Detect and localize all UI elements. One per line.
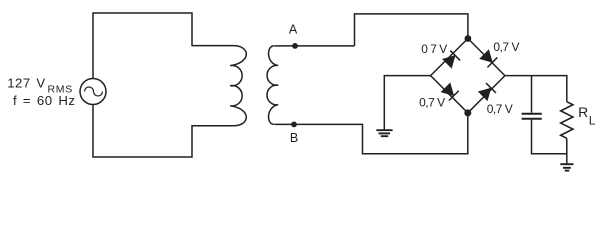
transformer T1 primary winding bbox=[230, 46, 246, 126]
svg-text:B: B bbox=[290, 131, 298, 145]
node: bridge top junction bbox=[465, 35, 472, 42]
resistor RL bbox=[561, 102, 573, 139]
wire bbox=[274, 113, 468, 154]
node B bbox=[291, 122, 297, 128]
wire bbox=[355, 14, 468, 46]
diode D3 (lower left) bbox=[441, 82, 460, 101]
node: bridge bottom junction bbox=[464, 109, 471, 116]
ground (bridge) bbox=[376, 130, 392, 136]
ground (output) bbox=[560, 164, 573, 170]
svg-text:R: R bbox=[578, 104, 588, 120]
diode bridge bbox=[431, 39, 505, 113]
capacitor C branch wire bbox=[531, 76, 533, 113]
svg-text:0 7 V: 0 7 V bbox=[421, 42, 447, 56]
capacitor C bbox=[522, 114, 542, 119]
svg-text:f = 60 Hz: f = 60 Hz bbox=[13, 93, 75, 108]
wire bbox=[384, 76, 430, 130]
wire bbox=[93, 13, 234, 79]
node A bbox=[292, 43, 298, 49]
diode D4 (lower right) bbox=[478, 83, 497, 102]
svg-text:L: L bbox=[589, 114, 596, 128]
AC source V1 bbox=[80, 79, 106, 105]
diode D2 (upper right) bbox=[479, 49, 498, 68]
svg-text:0,7 V: 0,7 V bbox=[487, 102, 513, 116]
wire bbox=[566, 138, 568, 164]
svg-text:127 V: 127 V bbox=[7, 76, 45, 91]
wire bbox=[505, 76, 567, 102]
wire bbox=[93, 105, 234, 158]
svg-text:0,7 V: 0,7 V bbox=[419, 96, 445, 110]
diode D1 (upper left) bbox=[442, 50, 461, 69]
transformer T1 secondary winding bbox=[267, 46, 278, 125]
svg-text:0,7 V: 0,7 V bbox=[493, 40, 519, 54]
svg-text:A: A bbox=[289, 23, 298, 37]
wire bbox=[532, 120, 567, 154]
wire bbox=[274, 45, 354, 47]
